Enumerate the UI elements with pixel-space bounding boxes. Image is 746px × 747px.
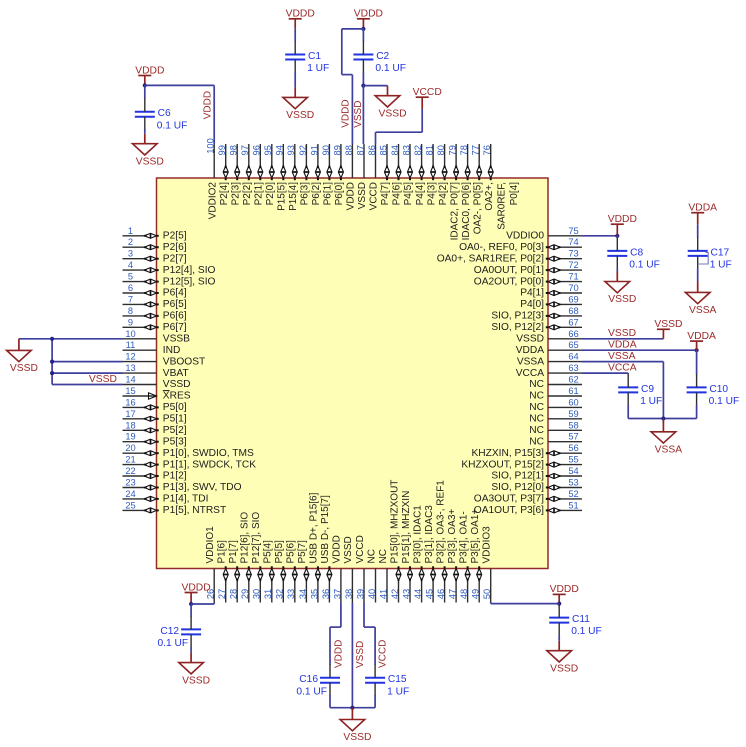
svg-text:84: 84	[390, 145, 400, 155]
svg-text:VDDD: VDDD	[341, 99, 352, 127]
svg-text:C6: C6	[158, 108, 171, 119]
svg-text:VDDD: VDDD	[182, 582, 211, 593]
svg-text:P2[4]: P2[4]	[219, 182, 230, 206]
svg-text:95: 95	[263, 145, 273, 155]
svg-text:23: 23	[125, 478, 135, 488]
svg-text:VSSD: VSSD	[550, 663, 578, 674]
svg-text:91: 91	[309, 145, 319, 155]
svg-text:83: 83	[401, 145, 411, 155]
svg-text:60: 60	[568, 397, 578, 407]
svg-text:0.1 UF: 0.1 UF	[629, 260, 660, 271]
svg-text:71: 71	[568, 272, 578, 282]
svg-text:72: 72	[568, 260, 578, 270]
svg-text:0.1 UF: 0.1 UF	[158, 638, 189, 649]
svg-text:VSSA: VSSA	[689, 305, 717, 316]
svg-text:65: 65	[568, 340, 578, 350]
svg-text:P6[2]: P6[2]	[311, 182, 322, 206]
svg-text:OA1OUT, P3[6]: OA1OUT, P3[6]	[474, 505, 544, 516]
svg-text:P6[3]: P6[3]	[300, 182, 311, 206]
svg-text:P5[3]: P5[3]	[163, 436, 187, 447]
svg-text:P5[4]: P5[4]	[263, 540, 274, 564]
svg-text:P1[5], NTRST: P1[5], NTRST	[163, 505, 226, 516]
svg-text:VSSD: VSSD	[343, 732, 371, 743]
svg-text:VSSA: VSSA	[517, 356, 544, 367]
svg-text:P12[7], SIO: P12[7], SIO	[251, 512, 262, 564]
svg-text:NC: NC	[529, 414, 544, 425]
svg-text:P12[5], SIO: P12[5], SIO	[163, 276, 216, 287]
svg-text:75: 75	[568, 226, 578, 236]
svg-text:P15[5]: P15[5]	[277, 182, 288, 211]
svg-text:62: 62	[568, 375, 578, 385]
svg-text:25: 25	[125, 500, 135, 510]
svg-text:97: 97	[240, 145, 250, 155]
svg-text:51: 51	[568, 500, 578, 510]
svg-text:VSSA: VSSA	[655, 445, 683, 456]
svg-text:VDDA: VDDA	[688, 203, 717, 214]
svg-text:82: 82	[413, 145, 423, 155]
svg-text:16: 16	[125, 397, 135, 407]
svg-text:SIO, P12[1]: SIO, P12[1]	[491, 471, 544, 482]
svg-text:P15[1], MHZXIN: P15[1], MHZXIN	[401, 491, 412, 564]
svg-text:38: 38	[344, 589, 354, 599]
svg-text:VSSD: VSSD	[89, 374, 117, 385]
svg-text:C10: C10	[709, 384, 728, 395]
svg-text:24: 24	[125, 489, 135, 499]
svg-text:P0[4]: P0[4]	[509, 182, 520, 206]
svg-text:NC: NC	[529, 425, 544, 436]
svg-text:43: 43	[401, 589, 411, 599]
svg-text:P5[6]: P5[6]	[286, 540, 297, 564]
svg-text:KHZXIN, P15[3]: KHZXIN, P15[3]	[472, 448, 545, 459]
svg-text:OA0-, REF0, P0[3]: OA0-, REF0, P0[3]	[459, 242, 544, 253]
svg-text:VSSD: VSSD	[654, 319, 682, 330]
svg-text:59: 59	[568, 409, 578, 419]
svg-text:P2[7]: P2[7]	[163, 253, 187, 264]
svg-text:68: 68	[568, 306, 578, 316]
svg-text:P15[4]: P15[4]	[288, 182, 299, 211]
svg-text:VSSD: VSSD	[355, 641, 366, 668]
svg-text:12: 12	[125, 352, 135, 362]
svg-text:P4[1]: P4[1]	[520, 288, 544, 299]
svg-text:67: 67	[568, 317, 578, 327]
svg-text:VDDD: VDDD	[135, 65, 164, 76]
svg-text:86: 86	[367, 145, 377, 155]
svg-text:6: 6	[128, 283, 133, 293]
svg-text:SIO, P12[3]: SIO, P12[3]	[491, 311, 544, 322]
svg-text:SAR0REF,: SAR0REF,	[496, 182, 507, 230]
svg-text:0.1 UF: 0.1 UF	[375, 63, 406, 74]
svg-text:7: 7	[128, 294, 133, 304]
svg-text:42: 42	[390, 589, 400, 599]
svg-text:VDDIO2: VDDIO2	[207, 182, 218, 220]
svg-text:21: 21	[125, 455, 135, 465]
svg-text:C12: C12	[160, 626, 179, 637]
svg-text:1 UF: 1 UF	[387, 686, 409, 697]
svg-text:61: 61	[568, 386, 578, 396]
svg-text:P5[5]: P5[5]	[274, 540, 285, 564]
svg-text:74: 74	[568, 237, 578, 247]
svg-text:45: 45	[425, 589, 435, 599]
svg-text:P4[2]: P4[2]	[438, 182, 449, 206]
svg-text:P4[6]: P4[6]	[392, 182, 403, 206]
svg-text:VSSA: VSSA	[608, 351, 636, 362]
svg-text:37: 37	[332, 589, 342, 599]
svg-text:52: 52	[568, 489, 578, 499]
svg-text:1: 1	[128, 226, 133, 236]
svg-text:29: 29	[240, 589, 250, 599]
svg-text:81: 81	[425, 145, 435, 155]
svg-text:P5[0]: P5[0]	[163, 402, 187, 413]
svg-text:27: 27	[217, 589, 227, 599]
svg-text:94: 94	[275, 145, 285, 155]
svg-text:VCCD: VCCD	[355, 535, 366, 563]
svg-text:NC: NC	[529, 379, 544, 390]
svg-text:P6[0]: P6[0]	[334, 182, 345, 206]
svg-text:P2[2]: P2[2]	[242, 182, 253, 206]
svg-text:VDDIO3: VDDIO3	[482, 526, 493, 564]
svg-text:VCCA: VCCA	[608, 363, 637, 374]
svg-text:15: 15	[125, 386, 135, 396]
svg-text:8: 8	[128, 306, 133, 316]
svg-text:VDDD: VDDD	[346, 182, 357, 210]
svg-text:36: 36	[321, 589, 331, 599]
svg-text:64: 64	[568, 352, 578, 362]
svg-text:NC: NC	[529, 402, 544, 413]
svg-text:18: 18	[125, 420, 135, 430]
svg-text:IND: IND	[163, 345, 181, 356]
svg-text:63: 63	[568, 363, 578, 373]
svg-text:P2[3]: P2[3]	[230, 182, 241, 206]
svg-text:P6[6]: P6[6]	[163, 311, 187, 322]
svg-text:VBOOST: VBOOST	[163, 356, 205, 367]
svg-text:P4[5]: P4[5]	[403, 182, 414, 206]
svg-text:VDDA: VDDA	[608, 340, 637, 351]
svg-text:VSSD: VSSD	[182, 675, 210, 686]
svg-text:17: 17	[125, 409, 135, 419]
svg-text:53: 53	[568, 478, 578, 488]
svg-text:1 UF: 1 UF	[640, 396, 662, 407]
svg-text:66: 66	[568, 329, 578, 339]
svg-text:56: 56	[568, 443, 578, 453]
svg-text:92: 92	[298, 145, 308, 155]
svg-text:46: 46	[436, 589, 446, 599]
svg-text:31: 31	[263, 589, 273, 599]
svg-text:P1[2]: P1[2]	[163, 471, 187, 482]
svg-text:VSSD: VSSD	[608, 328, 636, 339]
svg-text:39: 39	[355, 589, 365, 599]
svg-text:P1[7]: P1[7]	[228, 540, 239, 564]
svg-text:P5[7]: P5[7]	[297, 540, 308, 564]
svg-text:48: 48	[459, 589, 469, 599]
svg-text:78: 78	[459, 145, 469, 155]
svg-text:P3[0], IDAC1: P3[0], IDAC1	[412, 505, 423, 564]
svg-text:P4[0]: P4[0]	[520, 299, 544, 310]
svg-text:35: 35	[309, 589, 319, 599]
svg-text:13: 13	[125, 363, 135, 373]
svg-text:P6[5]: P6[5]	[163, 299, 187, 310]
svg-text:P5[2]: P5[2]	[163, 425, 187, 436]
svg-text:69: 69	[568, 294, 578, 304]
svg-text:VSSD: VSSD	[357, 182, 368, 209]
svg-text:VDDIO1: VDDIO1	[205, 526, 216, 564]
svg-text:VSSD: VSSD	[343, 536, 354, 563]
svg-text:VDDD: VDDD	[550, 584, 579, 595]
svg-text:88: 88	[344, 145, 354, 155]
svg-text:5: 5	[128, 272, 133, 282]
svg-text:VSSD: VSSD	[353, 101, 364, 128]
svg-text:VCCD: VCCD	[369, 182, 380, 210]
svg-text:IDAC0, P0[6]: IDAC0, P0[6]	[461, 182, 472, 241]
svg-text:OA0OUT, P0[1]: OA0OUT, P0[1]	[474, 265, 544, 276]
svg-text:C15: C15	[388, 674, 407, 685]
svg-text:47: 47	[448, 589, 458, 599]
svg-text:54: 54	[568, 466, 578, 476]
svg-text:49: 49	[471, 589, 481, 599]
svg-text:30: 30	[252, 589, 262, 599]
svg-text:P4[4]: P4[4]	[415, 182, 426, 206]
svg-text:85: 85	[378, 145, 388, 155]
svg-text:C17: C17	[711, 247, 730, 258]
svg-text:P2[0]: P2[0]	[265, 182, 276, 206]
svg-text:87: 87	[355, 145, 365, 155]
svg-text:C1: C1	[308, 51, 321, 62]
svg-text:NC: NC	[529, 436, 544, 447]
svg-text:C8: C8	[630, 247, 643, 258]
svg-text:VCCD: VCCD	[413, 87, 442, 98]
svg-text:44: 44	[413, 589, 423, 599]
svg-text:20: 20	[125, 443, 135, 453]
svg-text:0.1 UF: 0.1 UF	[571, 626, 602, 637]
svg-text:OA0+, SAR1REF, P0[2]: OA0+, SAR1REF, P0[2]	[437, 253, 544, 264]
svg-text:4: 4	[128, 260, 133, 270]
svg-text:0.1 UF: 0.1 UF	[296, 686, 327, 697]
svg-text:VDDA: VDDA	[516, 345, 545, 356]
svg-text:P5[1]: P5[1]	[163, 414, 187, 425]
svg-text:VSSD: VSSD	[10, 363, 38, 374]
svg-text:VDDD: VDDD	[334, 640, 345, 668]
svg-text:VBAT: VBAT	[163, 368, 189, 379]
svg-text:NC: NC	[366, 549, 377, 563]
svg-text:55: 55	[568, 455, 578, 465]
svg-text:77: 77	[471, 145, 481, 155]
svg-text:89: 89	[332, 145, 342, 155]
svg-text:P2[5]: P2[5]	[163, 231, 187, 242]
svg-text:OA2-, P0[5]: OA2-, P0[5]	[472, 182, 483, 234]
svg-text:IDAC2, P0[7]: IDAC2, P0[7]	[449, 182, 460, 241]
svg-text:0.1 UF: 0.1 UF	[709, 396, 740, 407]
svg-text:58: 58	[568, 420, 578, 430]
svg-text:80: 80	[436, 145, 446, 155]
svg-text:90: 90	[321, 145, 331, 155]
svg-text:96: 96	[252, 145, 262, 155]
svg-text:OA2OUT, P0[0]: OA2OUT, P0[0]	[474, 276, 544, 287]
svg-text:VCCA: VCCA	[516, 368, 545, 379]
svg-text:VSSD: VSSD	[163, 379, 191, 390]
svg-text:3: 3	[128, 249, 133, 259]
svg-text:P1[4], TDI: P1[4], TDI	[163, 494, 209, 505]
svg-text:P3[1], IDAC3: P3[1], IDAC3	[424, 505, 435, 564]
svg-text:VDDD: VDDD	[332, 535, 343, 563]
svg-text:VDDD: VDDD	[608, 214, 637, 225]
svg-text:VDDD: VDDD	[354, 9, 383, 20]
svg-text:73: 73	[568, 249, 578, 259]
svg-text:KHZXOUT, P15[2]: KHZXOUT, P15[2]	[461, 459, 544, 470]
svg-text:1 UF: 1 UF	[307, 63, 329, 74]
svg-text:VDDD: VDDD	[286, 9, 315, 20]
svg-text:57: 57	[568, 432, 578, 442]
svg-text:SIO, P12[0]: SIO, P12[0]	[491, 482, 544, 493]
svg-text:98: 98	[229, 145, 239, 155]
svg-text:P1[3], SWV, TDO: P1[3], SWV, TDO	[163, 482, 242, 493]
svg-text:70: 70	[568, 283, 578, 293]
svg-text:USB D-, P15[7]: USB D-, P15[7]	[320, 495, 331, 564]
svg-text:P3[5], OA1+: P3[5], OA1+	[470, 509, 481, 564]
svg-text:VCCD: VCCD	[377, 640, 388, 668]
svg-text:VSSD: VSSD	[378, 108, 406, 119]
svg-text:22: 22	[125, 466, 135, 476]
svg-text:P15[0], MHZXOUT: P15[0], MHZXOUT	[389, 480, 400, 564]
svg-text:32: 32	[275, 589, 285, 599]
svg-text:11: 11	[126, 340, 136, 350]
svg-text:P2[6]: P2[6]	[163, 242, 187, 253]
svg-text:9: 9	[128, 317, 133, 327]
svg-text:P12[4], SIO: P12[4], SIO	[163, 265, 216, 276]
svg-text:OA3OUT, P3[7]: OA3OUT, P3[7]	[474, 494, 544, 505]
svg-text:P1[6]: P1[6]	[217, 540, 228, 564]
svg-text:19: 19	[125, 432, 135, 442]
svg-text:76: 76	[482, 145, 492, 155]
svg-text:41: 41	[378, 589, 388, 599]
svg-text:C9: C9	[641, 384, 654, 395]
svg-text:P6[7]: P6[7]	[163, 322, 187, 333]
svg-text:P3[3], OA3+: P3[3], OA3+	[447, 509, 458, 564]
svg-text:OA2+,: OA2+,	[484, 182, 495, 211]
svg-text:USB D+, P15[6]: USB D+, P15[6]	[309, 492, 320, 563]
svg-text:40: 40	[367, 589, 377, 599]
svg-text:P1[0], SWDIO, TMS: P1[0], SWDIO, TMS	[163, 448, 254, 459]
svg-text:79: 79	[448, 145, 458, 155]
svg-text:P4[3]: P4[3]	[426, 182, 437, 206]
svg-text:P3[4], OA1-: P3[4], OA1-	[458, 511, 469, 563]
svg-text:99: 99	[217, 145, 227, 155]
svg-text:50: 50	[482, 589, 492, 599]
svg-text:1 UF: 1 UF	[710, 260, 732, 271]
svg-text:C2: C2	[376, 51, 389, 62]
svg-text:VDDIO0: VDDIO0	[506, 231, 544, 242]
svg-text:P12[6], SIO: P12[6], SIO	[240, 512, 251, 564]
svg-text:VDDD: VDDD	[203, 91, 214, 119]
svg-text:P6[1]: P6[1]	[323, 182, 334, 206]
svg-text:VSSD: VSSD	[608, 294, 636, 305]
svg-text:10: 10	[125, 329, 135, 339]
svg-text:C16: C16	[299, 674, 318, 685]
svg-text:VSSD: VSSD	[516, 334, 544, 345]
svg-text:P4[7]: P4[7]	[380, 182, 391, 206]
svg-text:VSSB: VSSB	[163, 334, 190, 345]
svg-text:VSSD: VSSD	[286, 110, 314, 121]
svg-text:P6[4]: P6[4]	[163, 288, 187, 299]
svg-text:2: 2	[128, 237, 133, 247]
svg-text:P1[1], SWDCK, TCK: P1[1], SWDCK, TCK	[163, 459, 256, 470]
svg-text:C11: C11	[572, 614, 590, 625]
svg-text:NC: NC	[529, 391, 544, 402]
svg-text:VDDA: VDDA	[687, 331, 716, 342]
svg-text:VSSD: VSSD	[136, 156, 164, 167]
svg-text:33: 33	[286, 589, 296, 599]
svg-text:93: 93	[286, 145, 296, 155]
svg-text:28: 28	[229, 589, 239, 599]
svg-text:0.1 UF: 0.1 UF	[157, 120, 188, 131]
svg-text:14: 14	[125, 375, 135, 385]
svg-text:SIO, P12[2]: SIO, P12[2]	[491, 322, 544, 333]
svg-text:34: 34	[298, 589, 308, 599]
svg-text:NC: NC	[378, 549, 389, 563]
svg-text:XRES: XRES	[163, 391, 191, 402]
svg-text:P3[2], OA3-, REF1: P3[2], OA3-, REF1	[435, 480, 446, 564]
svg-text:P2[1]: P2[1]	[254, 182, 265, 206]
